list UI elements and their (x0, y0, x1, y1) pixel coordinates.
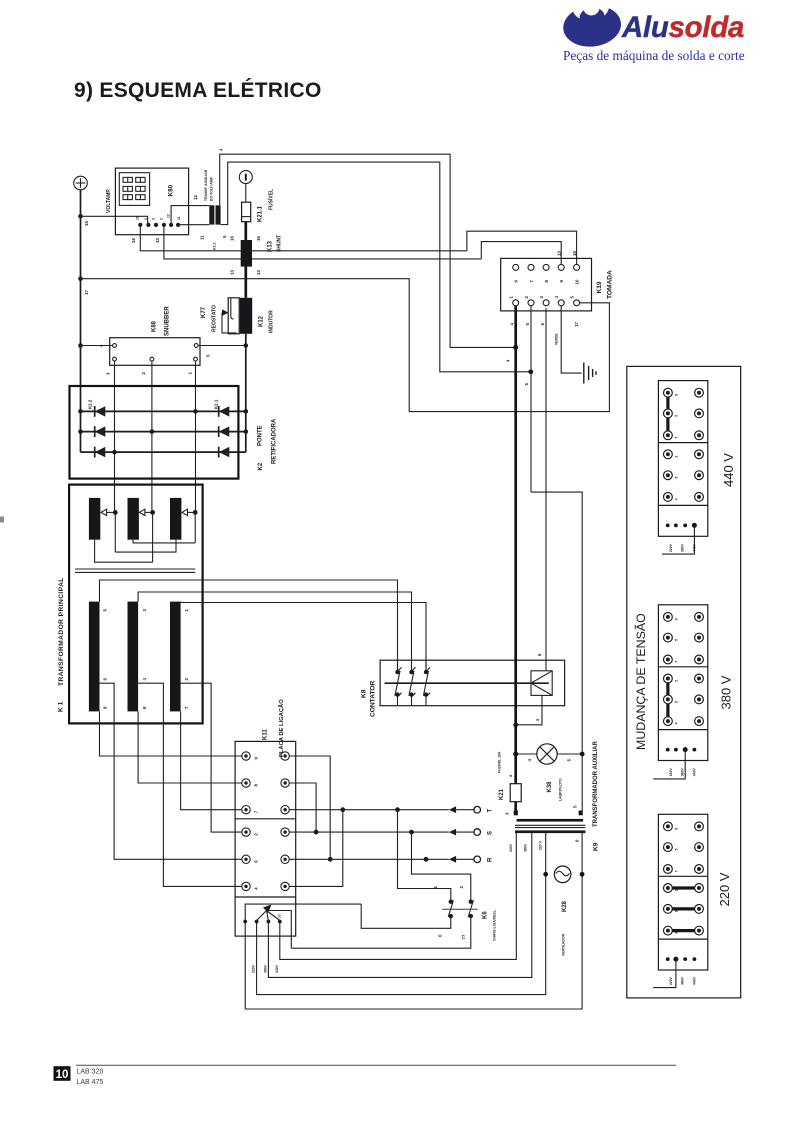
svg-text:440V: 440V (693, 976, 697, 985)
svg-text:16: 16 (572, 251, 577, 256)
svg-text:5: 5 (573, 805, 578, 808)
svg-text:4: 4 (535, 719, 540, 722)
svg-text:380V: 380V (681, 543, 685, 552)
svg-text:5: 5 (206, 354, 211, 357)
svg-text:380V: 380V (681, 976, 685, 985)
svg-text:17: 17 (574, 322, 579, 327)
svg-text:440 V: 440 V (721, 453, 736, 487)
svg-text:2: 2 (459, 886, 464, 889)
svg-text:440V: 440V (275, 964, 279, 973)
svg-text:220 V: 220 V (717, 872, 732, 906)
svg-text:380 V: 380 V (719, 675, 734, 709)
svg-text:5: 5 (525, 323, 530, 326)
svg-text:16: 16 (230, 236, 235, 241)
svg-text:VERDE: VERDE (555, 333, 559, 345)
svg-text:1: 1 (433, 886, 438, 889)
svg-text:K2.2: K2.2 (88, 399, 93, 409)
svg-text:4: 4 (254, 887, 259, 890)
svg-text:16: 16 (131, 238, 136, 243)
svg-text:1: 1 (509, 296, 514, 299)
svg-text:13: 13 (230, 270, 235, 275)
svg-text:220V: 220V (669, 543, 673, 552)
svg-text:K80: K80 (168, 184, 175, 196)
svg-text:12: 12 (193, 195, 198, 200)
svg-text:8: 8 (675, 618, 679, 620)
svg-text:SHUNT: SHUNT (277, 235, 283, 252)
svg-text:7: 7 (529, 280, 534, 283)
svg-text:LAB 320: LAB 320 (77, 1069, 104, 1076)
svg-text:77: 77 (278, 914, 282, 918)
svg-text:7: 7 (675, 661, 679, 663)
svg-text:440V: 440V (693, 543, 697, 552)
svg-text:K8: K8 (361, 689, 368, 698)
svg-text:2: 2 (254, 833, 259, 836)
svg-text:Alusolda: Alusolda (621, 11, 744, 44)
svg-text:6: 6 (675, 910, 679, 912)
svg-text:15: 15 (84, 221, 89, 226)
svg-text:13: 13 (155, 238, 160, 243)
svg-text:PLACA DE LIGAÇÃO: PLACA DE LIGAÇÃO (278, 699, 285, 757)
svg-text:2: 2 (524, 296, 529, 299)
svg-text:4: 4 (219, 148, 224, 151)
svg-text:SNUBBER: SNUBBER (165, 306, 171, 336)
svg-text:16: 16 (256, 236, 261, 241)
svg-text:9: 9 (254, 757, 259, 760)
svg-text:K77: K77 (201, 306, 207, 318)
svg-text:8: 8 (675, 828, 679, 830)
svg-text:VENTILADOR: VENTILADOR (562, 933, 566, 956)
svg-text:7: 7 (675, 870, 679, 872)
svg-text:FUSÍVEL: FUSÍVEL (267, 189, 275, 210)
svg-text:2: 2 (675, 456, 679, 458)
svg-text:13: 13 (557, 251, 562, 256)
svg-text:TOMADA: TOMADA (607, 270, 614, 299)
svg-text:S: S (488, 831, 494, 835)
svg-text:220 V: 220 V (539, 840, 543, 850)
svg-text:K6: K6 (483, 911, 489, 919)
svg-text:4: 4 (99, 344, 104, 347)
svg-text:TRANSFORMADOR PRINCIPAL: TRANSFORMADOR PRINCIPAL (58, 577, 65, 686)
svg-text:220V: 220V (252, 964, 256, 973)
svg-text:K2.1: K2.1 (214, 399, 219, 409)
svg-text:5: 5 (675, 848, 679, 850)
svg-text:Peças de máquina de solda e co: Peças de máquina de solda e corte (563, 48, 745, 63)
svg-text:CHAVE LIGA/DESL.: CHAVE LIGA/DESL. (493, 909, 497, 941)
svg-text:REOSTATO: REOSTATO (212, 305, 218, 332)
svg-text:380V: 380V (524, 843, 528, 852)
svg-text:3: 3 (142, 609, 147, 612)
svg-text:T: T (488, 809, 494, 813)
svg-text:6: 6 (675, 477, 679, 479)
svg-text:8: 8 (544, 280, 549, 283)
svg-text:0: 0 (575, 839, 580, 842)
svg-text:5: 5 (567, 759, 572, 762)
svg-text:6: 6 (103, 678, 108, 681)
svg-text:17: 17 (84, 290, 89, 295)
svg-text:K13: K13 (268, 240, 274, 252)
svg-text:INDUTOR: INDUTOR (269, 310, 275, 333)
svg-text:11: 11 (200, 235, 205, 240)
svg-text:220V: 220V (669, 976, 673, 985)
svg-text:5: 5 (222, 235, 227, 238)
svg-text:0: 0 (438, 934, 443, 937)
svg-text:R: R (488, 857, 494, 862)
svg-text:4: 4 (144, 218, 148, 220)
svg-text:4: 4 (527, 759, 532, 762)
svg-text:3: 3 (505, 812, 510, 815)
svg-text:2: 2 (675, 889, 679, 891)
svg-text:TRANSF. AUXILIAR: TRANSF. AUXILIAR (204, 169, 208, 201)
svg-text:4: 4 (675, 932, 679, 934)
svg-text:K28: K28 (562, 900, 568, 912)
svg-text:PONTE: PONTE (258, 425, 264, 446)
svg-text:LAMP.PILOTO: LAMP.PILOTO (559, 778, 563, 801)
svg-text:K38: K38 (547, 781, 553, 793)
svg-text:CONTATOR: CONTATOR (370, 681, 377, 717)
svg-text:8: 8 (254, 784, 259, 787)
svg-text:3: 3 (539, 296, 544, 299)
svg-text:K21.1: K21.1 (258, 205, 264, 222)
svg-text:9: 9 (103, 706, 108, 709)
svg-text:5: 5 (524, 383, 529, 386)
svg-text:K11: K11 (263, 729, 269, 740)
svg-text:2: 2 (675, 680, 679, 682)
svg-text:6: 6 (514, 280, 519, 283)
svg-text:380V: 380V (681, 768, 685, 777)
svg-text:7: 7 (254, 810, 259, 813)
svg-text:K9: K9 (593, 842, 600, 851)
svg-text:8: 8 (142, 706, 147, 709)
svg-text:380V: 380V (263, 964, 267, 973)
svg-text:440V: 440V (509, 843, 513, 852)
svg-text:4: 4 (510, 323, 515, 326)
svg-text:9) ESQUEMA ELÉTRICO: 9) ESQUEMA ELÉTRICO (74, 79, 322, 102)
svg-text:K2: K2 (258, 462, 264, 470)
svg-text:12: 12 (167, 214, 171, 218)
svg-text:K 1: K 1 (58, 701, 65, 712)
svg-text:13: 13 (256, 270, 261, 275)
svg-text:2: 2 (184, 678, 189, 681)
svg-text:2: 2 (159, 218, 163, 220)
svg-text:DO VOLT./AMP.: DO VOLT./AMP. (209, 176, 213, 201)
svg-text:4: 4 (675, 722, 679, 724)
svg-text:3: 3 (152, 218, 156, 220)
svg-text:220V: 220V (669, 768, 673, 777)
svg-text:K12: K12 (259, 315, 265, 327)
svg-text:6: 6 (254, 860, 259, 863)
svg-text:5: 5 (569, 296, 574, 299)
svg-text:6: 6 (537, 653, 542, 656)
svg-text:1: 1 (188, 372, 193, 375)
svg-text:VOLTAMP.: VOLTAMP. (106, 188, 112, 213)
svg-text:8: 8 (675, 394, 679, 396)
svg-text:TRANSFORMADOR AUXILIAR: TRANSFORMADOR AUXILIAR (593, 741, 599, 827)
svg-text:4: 4 (506, 359, 511, 362)
svg-text:4: 4 (554, 296, 559, 299)
svg-text:5: 5 (675, 415, 679, 417)
svg-text:5: 5 (675, 639, 679, 641)
svg-text:RETIFICADORA: RETIFICADORA (272, 418, 278, 464)
svg-text:77: 77 (461, 934, 466, 939)
svg-text:K3.1: K3.1 (212, 243, 216, 250)
svg-text:K21: K21 (499, 788, 505, 800)
svg-text:16: 16 (136, 216, 140, 220)
svg-text:7: 7 (184, 706, 189, 709)
svg-text:3: 3 (106, 372, 111, 375)
svg-text:5: 5 (103, 609, 108, 612)
svg-text:2: 2 (141, 372, 146, 375)
svg-text:1: 1 (184, 609, 189, 612)
svg-text:K88: K88 (152, 320, 158, 332)
svg-text:10: 10 (574, 279, 579, 284)
svg-text:9: 9 (559, 280, 564, 283)
svg-text:LAB 475: LAB 475 (77, 1079, 104, 1086)
svg-text:10: 10 (56, 1069, 69, 1081)
svg-text:440V: 440V (693, 768, 697, 777)
svg-text:6: 6 (540, 323, 545, 326)
svg-text:6: 6 (675, 701, 679, 703)
svg-text:4: 4 (142, 678, 147, 681)
svg-text:FUSÍVEL 10A: FUSÍVEL 10A (497, 751, 502, 773)
svg-text:MUDANÇA DE TENSÃO: MUDANÇA DE TENSÃO (634, 613, 648, 750)
svg-text:K19: K19 (596, 281, 603, 293)
svg-text:11: 11 (177, 216, 181, 220)
svg-text:7: 7 (675, 437, 679, 439)
svg-text:4: 4 (508, 775, 513, 778)
svg-text:4: 4 (675, 498, 679, 500)
